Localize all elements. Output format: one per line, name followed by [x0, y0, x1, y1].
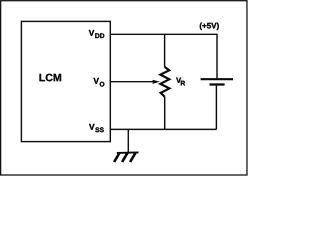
wiper arrowhead — [153, 80, 160, 84]
pin VO — [93, 78, 104, 87]
pin VSS — [89, 124, 104, 132]
label VR — [176, 78, 185, 86]
wire ground drop — [127, 129, 129, 152]
ground (chassis) — [114, 152, 138, 162]
pin VDD — [89, 30, 105, 38]
label LCM — [40, 74, 62, 82]
wire VO wiper lead — [110, 81, 154, 83]
wire VSS bottom rail — [110, 128, 216, 130]
potentiometer VR — [160, 34, 169, 129]
wire VDD top rail to battery + — [110, 34, 217, 79]
battery B1 — [201, 79, 233, 129]
LCM block — [21, 21, 110, 141]
net label +5V — [200, 23, 219, 30]
